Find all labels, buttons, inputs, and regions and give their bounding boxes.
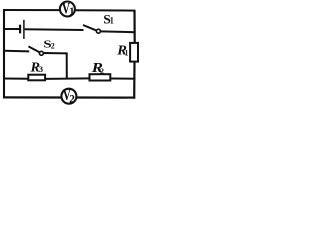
svg-text:3: 3 bbox=[39, 64, 43, 74]
svg-text:2: 2 bbox=[51, 42, 55, 51]
voltmeter V1 circle bbox=[60, 2, 75, 17]
resistor R1 box (vertical, on right border) bbox=[130, 43, 138, 62]
wire right border upper (top corner to R1) bbox=[133, 10, 135, 43]
wire top-left to V1 bbox=[3, 9, 59, 11]
battery negative plate (short thick) bbox=[19, 25, 21, 34]
wire row2 left segment to battery bbox=[4, 28, 19, 30]
wire S2 to corner bbox=[44, 52, 67, 54]
switch S2 contact circle bbox=[39, 51, 43, 55]
battery positive plate (long thin) bbox=[23, 20, 25, 39]
wire R3 to R2 (through junction) bbox=[46, 77, 90, 80]
wire vertical S2 corner down to middle row bbox=[66, 52, 68, 79]
switch S1 contact circle bbox=[96, 29, 100, 33]
wire middle row: left border to R3 bbox=[4, 78, 29, 80]
wire bottom-left to V2 bbox=[3, 96, 61, 98]
switch S2 blade bbox=[28, 46, 39, 52]
wire S1 to right border bbox=[101, 30, 136, 33]
switch S1 blade bbox=[83, 25, 97, 31]
wire R2 to right border bbox=[111, 78, 136, 80]
resistor R2 box bbox=[90, 74, 111, 80]
resistor R3 box bbox=[28, 75, 45, 81]
wire right border lower (R1 to bottom corner) bbox=[133, 62, 136, 99]
svg-text:1: 1 bbox=[110, 15, 114, 26]
wire row3 left segment to S2 bbox=[4, 50, 29, 53]
wire left border vertical bbox=[3, 9, 5, 98]
voltmeter V2 circle bbox=[61, 89, 76, 104]
wire V2 to bottom-right corner bbox=[77, 96, 135, 98]
wire V1 to top-right corner bbox=[76, 9, 135, 11]
svg-text:2: 2 bbox=[100, 67, 104, 76]
wire battery to S1 bbox=[25, 28, 84, 31]
svg-text:1: 1 bbox=[69, 7, 74, 18]
svg-text:1: 1 bbox=[125, 48, 129, 57]
svg-text:2: 2 bbox=[69, 94, 75, 106]
